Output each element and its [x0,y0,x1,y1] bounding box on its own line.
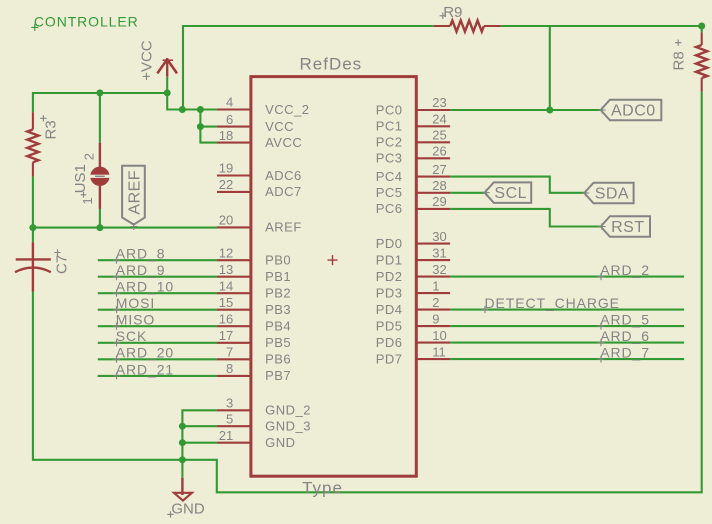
svg-text:23: 23 [432,95,446,110]
svg-text:PB1: PB1 [265,269,291,284]
svg-text:10: 10 [432,328,446,343]
svg-text:ARD_10: ARD_10 [116,279,174,295]
svg-text:17: 17 [219,328,233,343]
svg-text:ADC7: ADC7 [265,184,302,199]
svg-text:SCK: SCK [116,328,148,344]
svg-text:GND: GND [265,435,295,450]
svg-text:14: 14 [219,278,233,293]
svg-text:32: 32 [432,262,446,277]
svg-text:ADC0: ADC0 [611,103,656,120]
svg-text:ARD_7: ARD_7 [600,345,650,361]
svg-text:DETECT_CHARGE: DETECT_CHARGE [485,295,620,311]
svg-text:Type: Type [302,478,343,497]
svg-text:2: 2 [432,295,439,310]
svg-text:PD6: PD6 [376,335,403,350]
svg-text:11: 11 [432,344,446,359]
svg-text:R8: R8 [670,51,687,70]
svg-text:PD2: PD2 [376,269,403,284]
svg-text:26: 26 [432,144,446,159]
svg-text:PC3: PC3 [376,151,403,166]
svg-text:AREF: AREF [265,220,302,235]
svg-text:SDA: SDA [595,186,629,203]
svg-text:PC5: PC5 [376,185,403,200]
svg-text:GND_2: GND_2 [265,403,311,418]
svg-text:5: 5 [226,411,233,426]
svg-text:AREF: AREF [126,170,143,215]
svg-text:13: 13 [219,262,233,277]
svg-text:4: 4 [226,95,233,110]
svg-text:25: 25 [432,128,446,143]
svg-text:20: 20 [219,213,233,228]
svg-text:PC4: PC4 [376,169,403,184]
svg-text:30: 30 [432,229,446,244]
svg-text:PC1: PC1 [376,119,403,134]
svg-text:PD7: PD7 [376,351,403,366]
svg-text:C7: C7 [53,255,70,274]
svg-text:6: 6 [226,112,233,127]
svg-text:PC2: PC2 [376,135,403,150]
svg-text:PD1: PD1 [376,252,403,267]
svg-text:PB7: PB7 [265,368,291,383]
svg-text:GND_3: GND_3 [265,419,311,434]
svg-text:PB5: PB5 [265,335,291,350]
svg-text:CONTROLLER: CONTROLLER [34,14,139,30]
svg-text:MISO: MISO [116,312,155,328]
svg-text:8: 8 [226,361,233,376]
svg-text:SCL: SCL [494,185,527,202]
svg-text:GND: GND [171,501,205,518]
svg-text:PC6: PC6 [376,201,403,216]
svg-text:28: 28 [432,178,446,193]
svg-text:AVCC: AVCC [265,135,302,150]
svg-text:18: 18 [219,128,233,143]
svg-text:PB3: PB3 [265,302,291,317]
svg-text:31: 31 [432,245,446,260]
svg-text:ARD_2: ARD_2 [600,262,650,278]
svg-text:21: 21 [219,428,233,443]
svg-text:PD5: PD5 [376,318,403,333]
svg-text:27: 27 [432,162,446,177]
svg-text:ARD_8: ARD_8 [116,246,166,262]
svg-text:19: 19 [219,161,233,176]
svg-text:29: 29 [432,194,446,209]
svg-text:ARD_21: ARD_21 [116,361,174,377]
svg-text:MOSI: MOSI [116,295,155,311]
svg-text:PC0: PC0 [376,102,403,117]
svg-text:VCC: VCC [265,119,294,134]
svg-text:ARD_5: ARD_5 [600,312,650,328]
svg-text:16: 16 [219,311,233,326]
svg-text:US1: US1 [72,164,89,193]
svg-text:PD4: PD4 [376,302,403,317]
svg-text:PB2: PB2 [265,286,291,301]
svg-text:ADC6: ADC6 [265,168,302,183]
svg-text:+VCC: +VCC [138,40,155,81]
svg-text:VCC_2: VCC_2 [265,102,309,117]
svg-text:ARD_6: ARD_6 [600,328,650,344]
svg-text:12: 12 [219,245,233,260]
svg-text:R9: R9 [443,4,462,21]
svg-text:7: 7 [226,345,233,360]
svg-text:1: 1 [432,278,439,293]
svg-text:RefDes: RefDes [300,55,363,74]
svg-text:ARD_9: ARD_9 [116,262,166,278]
svg-text:RST: RST [611,219,645,236]
svg-text:PB4: PB4 [265,319,291,334]
svg-text:9: 9 [432,311,439,326]
svg-text:PD0: PD0 [376,236,403,251]
svg-text:PB0: PB0 [265,253,291,268]
svg-text:15: 15 [219,295,233,310]
svg-text:24: 24 [432,112,446,127]
svg-text:2: 2 [81,153,96,160]
svg-text:PB6: PB6 [265,352,291,367]
svg-text:PD3: PD3 [376,285,403,300]
svg-text:22: 22 [219,177,233,192]
svg-text:1: 1 [80,197,95,204]
svg-text:ARD_20: ARD_20 [116,345,174,361]
svg-text:R3: R3 [43,120,60,139]
svg-text:3: 3 [226,396,233,411]
